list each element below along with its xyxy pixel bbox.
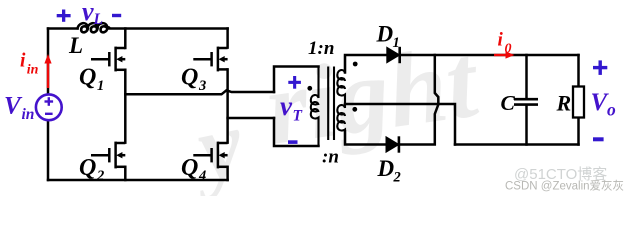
wire center tap to output return	[345, 104, 455, 145]
MOSFET Q4	[193, 142, 227, 169]
svg-text:Q: Q	[181, 155, 198, 181]
svg-text:3: 3	[198, 78, 206, 94]
wire right bridge leg middle	[226, 69, 229, 142]
svg-text:1: 1	[97, 78, 104, 94]
wire capacitor bottom lead	[525, 106, 528, 145]
diode D2	[386, 137, 399, 153]
transformer primary winding	[311, 67, 319, 147]
svg-text:v: v	[280, 91, 293, 121]
label + (v_T)	[288, 76, 301, 89]
wire top rail left of inductor	[48, 27, 78, 30]
label - (V_o)	[593, 137, 604, 141]
transformer secondary bottom winding	[337, 104, 345, 145]
wire top rail inductor to right leg	[108, 27, 228, 30]
svg-text:1:n: 1:n	[308, 38, 334, 59]
wire D2 cathode up to output with hop	[398, 55, 438, 145]
watermark	[179, 21, 487, 203]
wire left bridge leg upper	[124, 29, 127, 49]
svg-text:i: i	[498, 30, 504, 51]
transformer secondary top winding	[337, 55, 345, 104]
wire left bridge leg lower	[124, 167, 127, 180]
wire bottom output rail	[455, 143, 579, 146]
svg-text:4: 4	[198, 168, 206, 184]
MOSFET Q1	[91, 47, 125, 72]
svg-text:C: C	[501, 91, 516, 115]
transformer secondary dot top	[353, 62, 358, 67]
current arrow i_in	[47, 61, 49, 89]
wire right leg to R top	[577, 55, 580, 87]
wire D1 cathode to output	[400, 54, 579, 57]
voltage source Vin	[36, 94, 62, 120]
wire left vertical above source	[47, 29, 50, 95]
wire bracket bottom to primary	[274, 118, 319, 146]
svg-text:1: 1	[393, 35, 400, 51]
transformer secondary dot bottom	[352, 107, 357, 112]
inductor L coil	[77, 23, 109, 32]
wire bottom rail	[48, 179, 228, 182]
svg-text:i: i	[20, 51, 26, 72]
diode D1	[387, 47, 400, 63]
svg-text:2: 2	[393, 169, 401, 185]
label - (v_L)	[112, 14, 121, 17]
label + (v_L)	[57, 10, 71, 22]
capacitor C plates	[514, 99, 538, 104]
svg-text:in: in	[22, 106, 35, 123]
current arrow i_0	[494, 54, 509, 56]
label + (V_o)	[593, 60, 607, 75]
wire bracket top to primary	[274, 67, 319, 93]
svg-text:L: L	[93, 11, 103, 28]
svg-text:Q: Q	[181, 65, 198, 91]
svg-text:in: in	[27, 63, 39, 78]
wire node B to transformer	[228, 117, 274, 120]
svg-text:D: D	[377, 156, 395, 181]
wire node A to transformer with hop over right leg	[125, 90, 274, 94]
wire left vertical below source	[47, 121, 50, 181]
resistor R box	[573, 87, 584, 118]
wire R bottom to rail	[577, 117, 580, 145]
wire secondary top terminal	[345, 55, 387, 73]
svg-text:Q: Q	[79, 65, 96, 91]
MOSFET Q3	[193, 47, 227, 72]
svg-text:V: V	[4, 93, 23, 120]
wire capacitor top lead	[525, 55, 528, 98]
svg-text:o: o	[607, 100, 616, 120]
wire right bridge leg upper	[226, 29, 229, 48]
wire left bridge leg middle	[124, 70, 127, 143]
svg-text:0: 0	[505, 42, 512, 57]
svg-text:T: T	[293, 108, 303, 125]
svg-text:Q: Q	[79, 155, 96, 181]
label - (v_T)	[288, 140, 298, 144]
transformer primary dot	[307, 86, 312, 91]
svg-text:2: 2	[96, 168, 104, 184]
svg-text:R: R	[556, 91, 572, 116]
svg-text:CSDN @Zevalin爱灰灰: CSDN @Zevalin爱灰灰	[505, 179, 624, 193]
MOSFET Q2	[91, 142, 125, 169]
svg-text::n: :n	[322, 147, 339, 168]
svg-text:v: v	[82, 0, 94, 26]
wire secondary bottom terminal	[345, 131, 386, 145]
wire right bridge leg lower	[226, 167, 229, 180]
svg-text:D: D	[376, 22, 394, 47]
svg-text:L: L	[68, 33, 83, 58]
transformer core	[328, 67, 334, 141]
